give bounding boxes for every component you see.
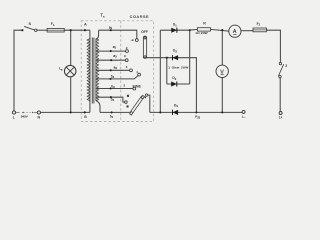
wire: top rail from secondary to coarse contact 1 xyxy=(99,30,137,38)
node A xyxy=(84,29,86,31)
tap wire a4 xyxy=(96,69,130,71)
wire: switch 2 to L+ terminal xyxy=(279,78,281,111)
terminal L- xyxy=(242,110,246,118)
node: D1 cathode rail junction xyxy=(189,29,191,31)
dashed divider between Tx and switch sections xyxy=(120,21,122,122)
tap wire a2 xyxy=(96,50,126,52)
switch S xyxy=(21,22,37,31)
transformer Tx secondary winding teeth and spine xyxy=(95,39,97,102)
240V dimension arrows xyxy=(16,111,20,113)
wire: fuse F1 to node A and primary top corner xyxy=(64,29,90,31)
lamp La xyxy=(59,65,76,77)
node b1 xyxy=(111,111,113,113)
node: rail junction below box corner xyxy=(195,111,197,113)
diode D3 xyxy=(173,49,179,61)
node a2 xyxy=(110,50,112,52)
contact 1 xyxy=(135,39,138,42)
wire: top rail D1 section xyxy=(160,28,197,31)
node b2 xyxy=(110,96,112,98)
node: lamp bottom junction xyxy=(70,111,72,113)
voltmeter V xyxy=(216,65,228,77)
terminal L (mains) xyxy=(12,111,15,114)
svg-text:240V: 240V xyxy=(21,114,28,118)
node b4 xyxy=(109,78,111,80)
svg-text:L+: L+ xyxy=(279,115,283,119)
fuse F2 xyxy=(253,22,267,32)
wire: coarse rotor output across to right down-corner xyxy=(146,58,196,113)
wire: rectifier box left edge xyxy=(166,58,168,84)
svg-text:N: N xyxy=(38,116,41,120)
transformer core xyxy=(91,38,93,104)
wire: bottom rail from secondary lead to fine wiper pivot xyxy=(100,111,130,113)
wire: voltmeter branch xyxy=(221,30,223,112)
contact 2 xyxy=(126,50,129,53)
fine position marks xyxy=(127,95,129,97)
lamp branch wires xyxy=(70,30,72,112)
node a3 xyxy=(110,59,112,61)
wire: bottom rail from N to primary bottom xyxy=(41,111,90,113)
svg-text:OFF: OFF xyxy=(141,30,148,34)
terminal N (mains) xyxy=(37,111,40,114)
ammeter A xyxy=(229,25,241,37)
wire: left vertical from L terminal to top rail xyxy=(14,30,21,111)
fine contact 1 xyxy=(138,73,141,76)
diode D4 xyxy=(173,103,179,115)
wire: rectifier box bottom through D2 xyxy=(167,83,190,85)
wire: bottom rail right section to L- terminal xyxy=(150,111,242,113)
node: voltmeter bottom junction xyxy=(221,111,223,113)
wire: rectifier box right edge up to top rail xyxy=(189,30,191,84)
wire: switch to fuse F1 xyxy=(37,29,47,31)
wire: vertical from D1 corner down to bottom rail xyxy=(159,30,161,112)
svg-text:1Ω 20W: 1Ω 20W xyxy=(195,31,207,35)
fine contact 2 xyxy=(133,87,136,90)
secondary top lead xyxy=(96,30,99,39)
node: lamp junction xyxy=(70,29,72,31)
transformer Tx primary winding teeth xyxy=(87,39,90,101)
node a1 xyxy=(110,29,112,31)
diode D1 xyxy=(171,23,177,33)
svg-text:1 Ohm 20W: 1 Ohm 20W xyxy=(168,66,188,70)
fine wiper arm with mechanical link diamonds xyxy=(130,94,148,115)
dashed enclosure box around Tx and selector switches xyxy=(81,21,154,122)
contact 3 xyxy=(125,59,128,62)
fuse F1 xyxy=(47,22,64,32)
svg-text:b1: b1 xyxy=(110,115,114,120)
wire: F2 to top right corner and down to switch 2 xyxy=(267,30,281,62)
svg-text:a3: a3 xyxy=(113,54,117,59)
resistor R xyxy=(195,21,210,35)
svg-text:L: L xyxy=(13,116,15,120)
node B xyxy=(84,111,86,113)
svg-text:L–: L– xyxy=(242,115,246,119)
svg-text:2: 2 xyxy=(285,64,287,68)
tap wire a3 xyxy=(96,59,125,61)
fine contact 4 xyxy=(125,101,128,104)
secondary bottom lead xyxy=(96,101,100,113)
primary winding spine xyxy=(89,30,91,112)
wire: ammeter to fuse F2 xyxy=(241,30,253,32)
tap wire b4 to fine contact 1 xyxy=(96,76,138,79)
node a4 xyxy=(110,69,112,71)
coarse wiper arm in OFF position xyxy=(143,36,146,58)
diode D2 xyxy=(171,76,177,86)
svg-text:R: R xyxy=(203,21,206,25)
switch 2 on right side xyxy=(278,62,287,77)
wire: fine wiper output down to bottom rail xyxy=(148,95,150,112)
contact 4 xyxy=(130,69,133,72)
tap wire b2 to fine contact 4 xyxy=(96,97,125,102)
node: rail junction x160 xyxy=(159,111,161,113)
wire: resistor R to ammeter xyxy=(211,29,229,31)
svg-text:COARSE: COARSE xyxy=(130,15,150,19)
node b3 xyxy=(110,87,112,89)
tap wire b3 to fine contact 2 xyxy=(96,88,133,90)
terminal L+ xyxy=(279,112,283,120)
svg-text:FINE: FINE xyxy=(133,84,142,88)
node: meter V top junction xyxy=(221,29,223,31)
node: rectifier box left top junction xyxy=(166,57,168,59)
